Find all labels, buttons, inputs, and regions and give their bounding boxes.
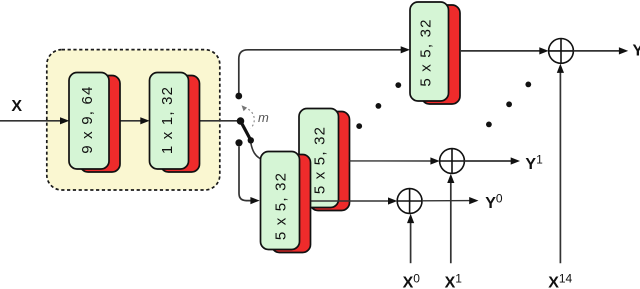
wire: input X0 arrow up into adder S0 — [410, 217, 412, 264]
svg-text:X: X — [11, 98, 22, 115]
arrowhead into adder S1 — [430, 157, 439, 164]
shared feature-extraction region (dashed yellow box) — [47, 50, 220, 190]
wire: block C0 output to adder S0 (passes over rear block, under front block) — [290, 200, 394, 202]
arrowhead into adder S1 bottom — [447, 174, 454, 183]
wire: input X14 arrow up into adder S14 — [559, 67, 561, 264]
arrowhead at output Y — [619, 47, 628, 54]
arrowhead into block C2 — [140, 117, 149, 124]
arrowhead into block C14 — [401, 46, 410, 53]
wire: block C1b output to adder S1 — [350, 160, 437, 162]
svg-text:m: m — [258, 110, 269, 125]
arrowhead into adder S0 bottom — [407, 214, 414, 223]
switch SW1 bottom contact node — [235, 139, 242, 146]
conv block C0 "5 x 5, 32" (front, branch 0) — [261, 152, 311, 253]
wire: block C14 output to adder S14 — [460, 50, 546, 52]
arrowhead at output Y0 — [469, 197, 478, 204]
wire: input X1 arrow up into adder S1 — [450, 177, 452, 264]
conv block C14 "5 x 5, 32" (top, branch 14) — [410, 2, 460, 104]
svg-text:Y: Y — [633, 43, 640, 60]
switch SW1 top contact node — [235, 93, 242, 100]
conv block C1 "9 x 9, 64" — [69, 73, 120, 173]
arrowhead into block C1 — [60, 117, 69, 124]
switch SW1 arm end node — [248, 137, 254, 143]
adder S14 (circle-plus) — [549, 39, 574, 64]
switch SW1 pivot node — [237, 117, 245, 125]
wire: adder S14 output to Y — [573, 50, 625, 52]
svg-text:9 x 9, 64: 9 x 9, 64 — [79, 85, 96, 153]
wire: switch arm lead curving into block C0 — [251, 143, 264, 160]
svg-text:5 x 5, 32: 5 x 5, 32 — [272, 172, 289, 240]
switch rotation indicator (dashed arc) — [244, 108, 254, 129]
wire: lower branch from switch contact down and right into block C0 — [239, 146, 257, 200]
svg-text:5 x 5, 32: 5 x 5, 32 — [311, 126, 328, 194]
adder S1 (circle-plus) — [440, 149, 465, 174]
arrowhead into block C0 — [250, 197, 259, 204]
svg-text:1 x 1, 32: 1 x 1, 32 — [159, 86, 176, 154]
wire: top branch from switch contact up and right to block C14 — [239, 50, 407, 96]
ellipsis dots (adders 2..13, right diagonal) — [486, 82, 531, 128]
arrowhead into adder S14 bottom — [557, 64, 564, 73]
arrowhead into adder S14 — [539, 47, 548, 54]
conv block C2 "1 x 1, 32" — [150, 73, 200, 173]
wire: adder S1 output to Y1 — [464, 160, 517, 162]
rotation arrowhead — [242, 105, 248, 111]
wire: input rail from X through conv blocks to switch pivot — [0, 120, 241, 122]
arrowhead at output Y1 — [511, 157, 520, 164]
ellipsis dots (branches 2..13, left diagonal) — [356, 82, 401, 129]
adder S0 (circle-plus) — [397, 189, 422, 214]
switch SW1 arm — [241, 121, 251, 140]
arrowhead into adder S0 — [388, 197, 397, 204]
wire: adder S0 output to Y0 — [422, 200, 475, 202]
svg-text:5 x 5, 32: 5 x 5, 32 — [418, 18, 435, 86]
conv block C1b "5 x 5, 32" (rear, branch 1) — [299, 109, 350, 211]
